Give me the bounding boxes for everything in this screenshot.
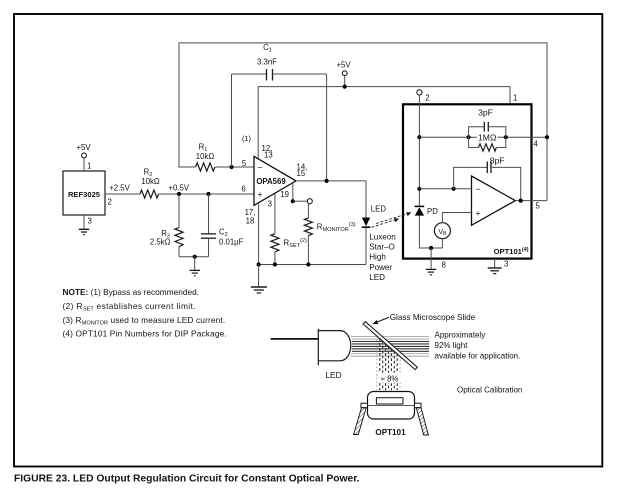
wire OPT101 output pin 5 — [515, 199, 547, 211]
svg-text:1: 1 — [87, 162, 91, 171]
svg-text:+: + — [258, 189, 263, 199]
ground (pin 8) — [426, 269, 437, 274]
ground (rail) — [251, 287, 267, 293]
svg-text:19: 19 — [280, 190, 289, 199]
wire op-amp pins 17,18 to ground rail — [258, 203, 260, 265]
wire +5V supply rail — [258, 87, 517, 159]
ground (pin 3) — [488, 268, 502, 274]
resistor RSET — [271, 234, 307, 265]
svg-text:OPT101(4): OPT101(4) — [494, 247, 529, 256]
wire REF3025 pin 3 to ground — [84, 215, 92, 229]
svg-text:18: 18 — [246, 217, 255, 226]
wire REF3025 pin 2 (+2.5V) to R2 — [105, 184, 140, 207]
svg-text:8pF: 8pF — [490, 156, 505, 166]
svg-text:3: 3 — [88, 217, 92, 226]
svg-text:+5V: +5V — [336, 61, 351, 70]
svg-text:OPT101: OPT101 — [375, 428, 406, 437]
svg-text:High: High — [369, 253, 386, 262]
svg-text:(4) OPT101 Pin Numbers for DIP: (4) OPT101 Pin Numbers for DIP Package. — [63, 329, 227, 339]
wire op-amp output to LED — [296, 179, 366, 218]
wire +5V to REF3025 pin 1 — [84, 158, 91, 171]
svg-text:2: 2 — [425, 94, 429, 103]
svg-text:+2.5V: +2.5V — [109, 184, 130, 193]
svg-text:LED: LED — [371, 204, 387, 213]
voltage source VB — [434, 213, 471, 249]
capacitor 3pF — [469, 108, 506, 138]
svg-text:2.5kΩ: 2.5kΩ — [150, 238, 171, 247]
glass microscope slide — [363, 313, 476, 370]
label ~8% — [378, 373, 402, 384]
wire pin 3 to ground — [495, 259, 509, 269]
svg-text:≈ 8%: ≈ 8% — [381, 375, 399, 384]
node +5V supply terminal — [336, 61, 351, 89]
svg-text:+0.5V: +0.5V — [168, 184, 189, 193]
svg-text:6: 6 — [241, 185, 245, 194]
svg-text:(1): (1) — [242, 134, 251, 143]
wire pin 8 to ground — [431, 248, 446, 270]
light emission arrows LED to PD — [372, 212, 412, 227]
wire node +0.5V to op-amp pin 6 — [159, 184, 255, 195]
svg-text:LED: LED — [325, 370, 341, 380]
capacitor C1 3.3nF feedback — [232, 43, 327, 181]
svg-text:92% light: 92% light — [435, 341, 469, 350]
svg-text:(3) RMONITOR used to measure L: (3) RMONITOR used to measure LED current… — [63, 315, 226, 327]
wire feedback loop from R1 to OPT101 output — [179, 43, 547, 201]
node junction R3 — [177, 192, 181, 196]
svg-text:C1: C1 — [263, 43, 272, 54]
svg-text:RMONITOR(3): RMONITOR(3) — [317, 222, 356, 233]
wire PD cathode to inverting input — [419, 187, 471, 191]
svg-text:FIGURE 23. LED Output Regulati: FIGURE 23. LED Output Regulation Circuit… — [14, 474, 360, 485]
ground (REF3025) — [79, 229, 90, 234]
svg-text:+: + — [476, 208, 481, 218]
resistor R1 10kOhm — [196, 143, 216, 172]
voltage reference REF3025 — [63, 171, 105, 215]
wire pin 19 monitor output — [280, 183, 312, 204]
capacitor 8pF — [454, 156, 521, 201]
lamp LED package drawing — [271, 329, 351, 380]
svg-text:PD: PD — [427, 207, 438, 216]
svg-text:4: 4 — [534, 140, 539, 149]
svg-text:5: 5 — [536, 202, 541, 211]
svg-text:−: − — [476, 184, 481, 194]
svg-text:Glass Microscope Slide: Glass Microscope Slide — [390, 313, 476, 322]
svg-text:Luxeon: Luxeon — [369, 232, 396, 241]
svg-text:3pF: 3pF — [478, 108, 493, 118]
svg-text:LED: LED — [369, 273, 385, 282]
svg-text:REF3025: REF3025 — [68, 190, 101, 199]
light rays — [351, 337, 429, 357]
svg-text:2: 2 — [108, 198, 112, 207]
svg-text:OPA569: OPA569 — [256, 177, 286, 186]
svg-text:1MΩ: 1MΩ — [478, 132, 497, 142]
LED D1 — [362, 204, 387, 264]
svg-text:10kΩ: 10kΩ — [141, 177, 160, 186]
LED description label — [369, 232, 396, 282]
resistor 1MOhm — [469, 132, 506, 151]
op-amp U1 OPA569 — [242, 134, 307, 226]
svg-text:Approximately: Approximately — [435, 331, 486, 340]
node C1 tap on pin 5 — [229, 165, 233, 169]
wire op-amp pin 5 inverting input — [216, 159, 255, 168]
svg-text:3.3nF: 3.3nF — [257, 58, 277, 67]
svg-text:available for application.: available for application. — [435, 352, 521, 361]
svg-text:8: 8 — [442, 261, 446, 270]
ground (R3/C2) — [190, 270, 201, 275]
op-amp U2 inside OPT101 — [472, 176, 516, 225]
wire bottom ground rail — [257, 262, 367, 286]
svg-text:NOTE: (1) Bypass as recommende: NOTE: (1) Bypass as recommended. — [63, 287, 199, 297]
svg-text:Star–O: Star–O — [369, 243, 395, 252]
node pin 2 terminal OPT101 — [417, 90, 430, 206]
wire PD anode to VB — [419, 216, 442, 250]
text optical calibration — [457, 386, 522, 395]
svg-text:(2) RSET establishes current l: (2) RSET establishes current limit. — [63, 301, 196, 313]
svg-text:1: 1 — [513, 94, 517, 103]
svg-text:0.01μF: 0.01μF — [219, 238, 244, 247]
wire 1M feedback network line — [419, 135, 549, 148]
wire op-amp pin 3 to RSET — [268, 194, 275, 234]
svg-text:5: 5 — [242, 159, 247, 168]
OPT101 DIP package drawing — [354, 392, 429, 437]
svg-text:RSET(2): RSET(2) — [284, 238, 308, 249]
svg-text:10kΩ: 10kΩ — [196, 152, 215, 161]
svg-text:Optical Calibration: Optical Calibration — [457, 386, 522, 395]
svg-text:Power: Power — [369, 263, 392, 272]
capacitor C2 0.01uF — [201, 194, 244, 257]
wire R3/C2 bottom to ground — [179, 255, 209, 270]
IC OPT101 box — [403, 104, 532, 258]
svg-text:3: 3 — [504, 260, 508, 269]
svg-text:−: − — [258, 163, 263, 173]
svg-text:13: 13 — [264, 151, 273, 160]
svg-text:15: 15 — [297, 169, 306, 178]
svg-text:3: 3 — [268, 200, 272, 209]
caption — [14, 474, 360, 485]
node junction C2 — [206, 192, 210, 196]
text approximately 92% light — [435, 331, 521, 361]
svg-text:C2: C2 — [219, 227, 228, 238]
resistor R2 10kOhm — [140, 168, 160, 199]
notes text block — [63, 287, 227, 339]
resistor RMONITOR — [304, 204, 355, 265]
photodiode PD — [415, 206, 439, 216]
svg-text:+5V: +5V — [76, 143, 91, 152]
dashed transmitted light lines — [377, 336, 400, 390]
node +5V left terminal — [76, 143, 91, 158]
resistor R3 2.5kOhm — [150, 194, 183, 257]
